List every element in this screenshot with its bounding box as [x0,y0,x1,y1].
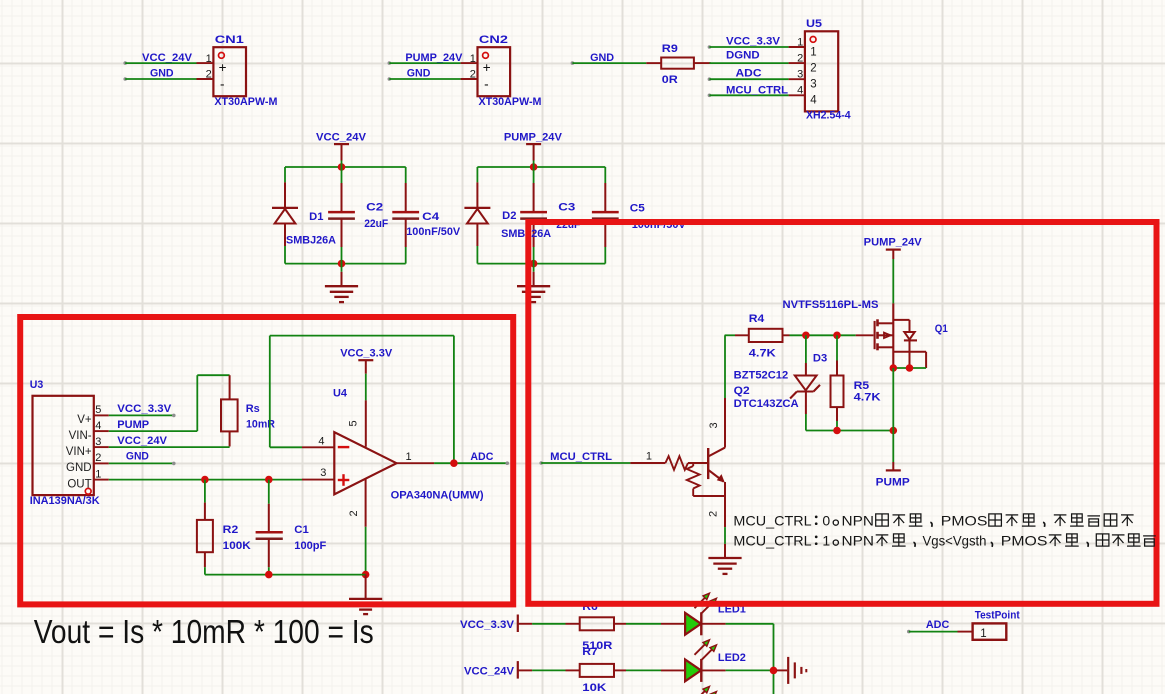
svg-text:5: 5 [348,420,360,426]
svg-text:100nF/50V: 100nF/50V [406,226,461,238]
svg-text:XH2.54-4: XH2.54-4 [806,110,851,122]
svg-text:VCC_3.3V: VCC_3.3V [117,403,172,415]
svg-text:3: 3 [708,422,720,428]
svg-text:LED2: LED2 [718,652,746,664]
svg-text:DTC143ZCA: DTC143ZCA [734,398,799,410]
svg-text:R5: R5 [854,380,870,392]
svg-text:OPA340NA(UMW): OPA340NA(UMW) [391,490,484,502]
svg-text:XT30APW-M: XT30APW-M [214,96,277,108]
svg-text:GND: GND [126,450,149,462]
svg-text:C1: C1 [294,524,309,536]
svg-text:D2: D2 [502,210,516,222]
svg-text:5: 5 [95,404,101,416]
svg-text:PUMP: PUMP [876,477,910,489]
svg-text:1: 1 [810,46,816,58]
svg-text:2: 2 [95,452,101,464]
svg-text:PUMP: PUMP [117,419,149,431]
svg-text:ADC: ADC [926,619,949,631]
svg-text:1: 1 [646,451,652,463]
svg-text:0R: 0R [662,74,678,86]
svg-text:VCC_3.3V: VCC_3.3V [460,619,515,631]
svg-text:BZT52C12: BZT52C12 [734,370,789,382]
svg-text:PMOS: PMOS [941,513,988,529]
svg-text:PUMP_24V: PUMP_24V [504,132,563,144]
svg-text:C2: C2 [366,201,383,213]
svg-text:3: 3 [95,436,101,448]
svg-text:CN2: CN2 [479,34,508,46]
svg-text:4.7K: 4.7K [749,348,776,360]
svg-text:PMOS: PMOS [1001,533,1048,549]
svg-text:3: 3 [810,79,816,91]
svg-text:GND: GND [150,68,174,80]
svg-text:3: 3 [797,69,803,81]
svg-text:-: - [220,77,225,92]
svg-text:2: 2 [797,53,803,65]
svg-text:+: + [219,60,227,75]
svg-text:1: 1 [822,533,830,549]
svg-text:Vgs<Vgsth: Vgs<Vgsth [923,533,987,549]
svg-text:100pF: 100pF [294,540,326,552]
svg-text:MCU_CTRL: MCU_CTRL [733,533,812,549]
svg-text:DGND: DGND [726,50,760,62]
svg-text:4: 4 [810,95,817,107]
svg-text:+: + [483,60,491,75]
svg-text:22uF: 22uF [364,218,388,230]
svg-text:ADC: ADC [470,451,493,463]
svg-text:C3: C3 [558,202,575,214]
svg-text:GND: GND [66,462,92,474]
svg-text:4.7K: 4.7K [854,392,881,404]
svg-text:NPN: NPN [842,513,874,529]
svg-text:10K: 10K [582,682,606,694]
svg-text:VIN-: VIN- [69,430,92,442]
svg-text:PUMP_24V: PUMP_24V [405,52,463,64]
svg-text:100K: 100K [223,540,251,552]
svg-text:Q2: Q2 [734,385,750,397]
svg-text:MCU_CTRL: MCU_CTRL [726,84,788,96]
svg-text:VCC_3.3V: VCC_3.3V [726,36,781,48]
svg-text:VCC_24V: VCC_24V [316,132,367,144]
svg-text:Vout = Is * 10mR * 100 = Is: Vout = Is * 10mR * 100 = Is [34,613,374,650]
svg-text:0: 0 [822,513,830,529]
svg-text:ADC: ADC [736,68,762,80]
svg-text:VCC_24V: VCC_24V [464,666,515,678]
svg-text:NVTFS5116PL-MS: NVTFS5116PL-MS [783,299,879,311]
svg-text:D3: D3 [813,353,827,365]
svg-text:NPN: NPN [842,533,874,549]
svg-text:C5: C5 [630,203,645,215]
svg-text:R2: R2 [223,524,239,536]
svg-text:R9: R9 [662,43,678,55]
svg-text:-: - [484,77,489,92]
svg-text:R7: R7 [582,646,598,658]
svg-text:1: 1 [95,468,101,480]
svg-text:GND: GND [590,52,614,64]
svg-text:Q1: Q1 [935,323,948,335]
svg-text:TestPoint: TestPoint [975,610,1020,622]
svg-text:Rs: Rs [246,403,260,415]
svg-text:2: 2 [348,510,360,516]
svg-text:1: 1 [406,451,412,463]
svg-text:4: 4 [797,85,803,97]
svg-text:GND: GND [407,68,431,80]
svg-text:1: 1 [797,36,803,48]
svg-text:VIN+: VIN+ [66,446,92,458]
svg-text:C4: C4 [422,211,440,223]
svg-text:V+: V+ [77,414,92,426]
svg-text:VCC_24V: VCC_24V [142,52,193,64]
svg-text:2: 2 [708,511,720,517]
svg-text:PUMP_24V: PUMP_24V [864,236,923,248]
svg-text:MCU_CTRL: MCU_CTRL [733,513,812,529]
svg-text:VCC_24V: VCC_24V [117,435,167,447]
svg-text:D1: D1 [309,211,323,223]
svg-text:MCU_CTRL: MCU_CTRL [550,451,612,463]
svg-text:CN1: CN1 [215,34,244,46]
svg-text:VCC_3.3V: VCC_3.3V [340,347,393,359]
svg-text:4: 4 [318,436,324,448]
svg-text:2: 2 [810,62,816,74]
svg-text:U5: U5 [806,18,822,30]
svg-text:INA139NA/3K: INA139NA/3K [30,495,100,507]
svg-text:3: 3 [320,467,326,479]
svg-text:U4: U4 [333,388,348,400]
svg-text:R4: R4 [749,313,765,325]
svg-text:4: 4 [95,420,101,432]
svg-text:SMBJ26A: SMBJ26A [286,235,336,247]
svg-text:1: 1 [980,628,986,640]
svg-text:U3: U3 [30,379,44,391]
svg-text:XT30APW-M: XT30APW-M [479,96,542,108]
